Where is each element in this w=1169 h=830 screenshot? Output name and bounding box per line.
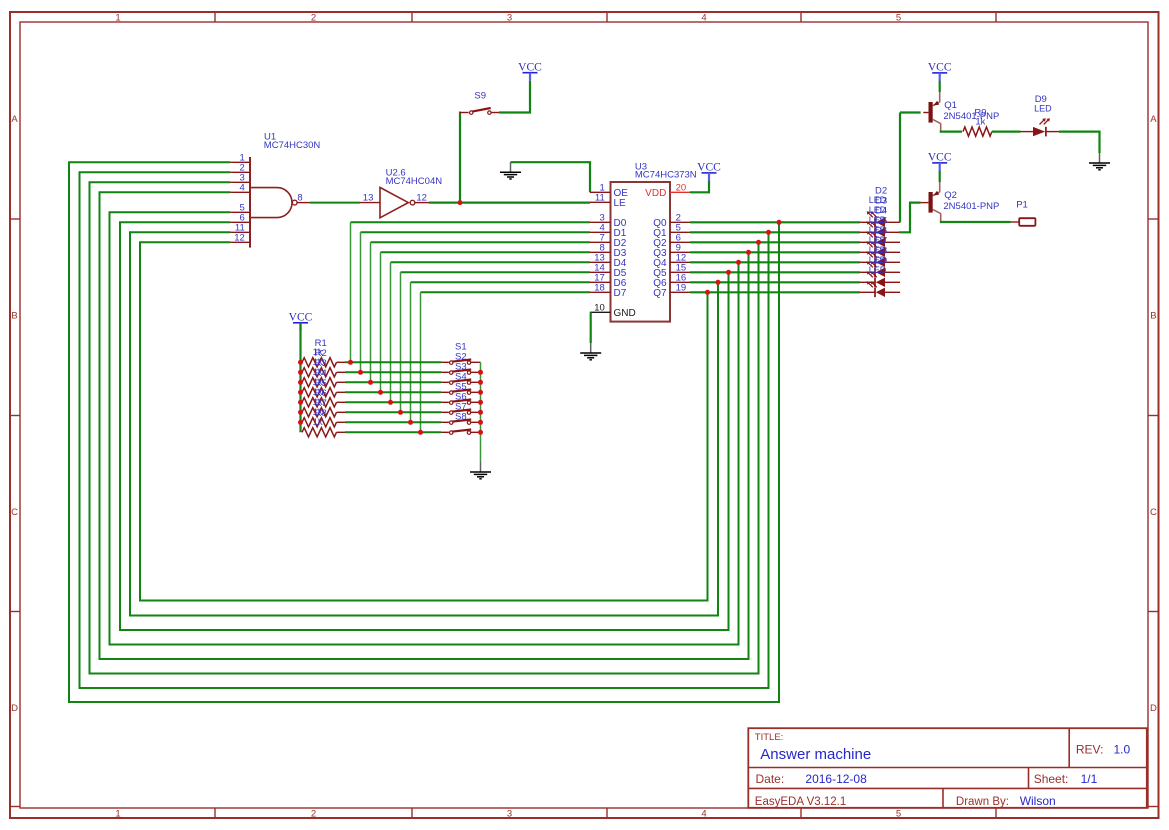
wire U3 D6 to R7/S7 row: [411, 281, 591, 283]
svg-text:B: B: [1150, 311, 1156, 322]
wire NAND output to inverter input: [310, 202, 360, 204]
svg-text:EasyEDA V3.12.1: EasyEDA V3.12.1: [755, 796, 846, 808]
ground (D9): [1099, 153, 1101, 163]
wire U3 Q4 to LED D6: [690, 261, 860, 263]
U3 pin 6 Q2: [653, 232, 690, 249]
wire R3 to S3: [345, 381, 441, 383]
resistor R6 1k: [302, 388, 345, 417]
wire LED D2 anode to Q1 base: [899, 113, 901, 223]
switch S9: [460, 91, 499, 115]
svg-text:Date:: Date:: [756, 772, 785, 786]
svg-text:Q1: Q1: [944, 100, 957, 111]
ground (near U3 OE): [510, 162, 512, 172]
wire VCC rail down resistor left ends: [299, 323, 301, 433]
U3 pin 19 Q7: [653, 282, 690, 299]
LED D9: [1021, 94, 1060, 136]
svg-text:1: 1: [115, 809, 120, 820]
svg-text:P1: P1: [1016, 199, 1028, 210]
wire U3 Q3 to LED D5: [690, 251, 860, 253]
U3 pin 10 GND: [590, 302, 636, 319]
svg-text:18: 18: [594, 282, 605, 293]
junction Q0 feedback tap: [777, 220, 782, 225]
transistor Q1 2N5401-PNP: [923, 92, 999, 132]
wire VCC to Q1 emitter: [939, 81, 941, 92]
svg-text:VCC: VCC: [928, 62, 952, 74]
svg-text:3: 3: [507, 13, 512, 24]
switch S5: [441, 381, 481, 404]
U3 pin 13 D4: [590, 252, 627, 269]
LED D8: [860, 245, 900, 287]
svg-text:VDD: VDD: [645, 188, 666, 199]
svg-text:Sheet:: Sheet:: [1034, 772, 1069, 786]
svg-text:D: D: [11, 703, 18, 714]
wire U3 D3 to R4/S4 row: [381, 251, 591, 253]
svg-text:10: 10: [594, 302, 605, 313]
wire feedback net 5-Q4 : NAND input, left/bottom/right loop: [110, 212, 739, 644]
LED D7: [860, 235, 900, 277]
U3 pin 5 Q1: [653, 222, 690, 239]
junction Q5 feedback tap: [726, 270, 731, 275]
wire Q2 collector to P1: [940, 221, 1011, 223]
svg-text:LED: LED: [869, 265, 887, 275]
svg-text:S9: S9: [474, 91, 486, 102]
svg-text:1: 1: [115, 13, 120, 24]
svg-text:3: 3: [507, 809, 512, 820]
junction D6 drop on row 7: [408, 420, 413, 425]
wire R4 to S4: [345, 391, 441, 393]
svg-text:Q2: Q2: [944, 190, 957, 201]
junction switch bus S7: [478, 420, 483, 425]
svg-text:VCC: VCC: [928, 152, 952, 164]
wire R8 to S8: [345, 431, 441, 433]
wire U3 Q1 to LED D3: [690, 231, 860, 233]
LED D6: [860, 225, 900, 267]
LED D9: [860, 255, 900, 297]
resistor R4 1k: [302, 368, 345, 397]
switch S7: [441, 401, 481, 424]
U3 pin 20 VDD: [645, 182, 690, 199]
svg-text:VCC: VCC: [289, 312, 313, 324]
svg-text:GND: GND: [614, 308, 636, 319]
junction VCC rail R7: [298, 420, 303, 425]
wire U3 Q7 to LED D9: [690, 291, 860, 293]
resistor R3 1k: [302, 358, 345, 387]
wire R7 to S7: [345, 421, 441, 423]
resistor R2 1k: [302, 348, 345, 377]
svg-text:2N5401-PNP: 2N5401-PNP: [943, 201, 999, 212]
svg-text:D: D: [1150, 703, 1157, 714]
svg-text:D7: D7: [614, 288, 627, 299]
junction switch bus S4: [478, 390, 483, 395]
junction VCC rail R1: [298, 360, 303, 365]
junction D2 drop on row 3: [368, 380, 373, 385]
svg-text:11: 11: [595, 192, 605, 203]
svg-text:2016-12-08: 2016-12-08: [805, 772, 867, 786]
U3 pin 16 Q6: [653, 272, 690, 289]
LED D3: [860, 195, 900, 237]
wire R5 to S5: [345, 401, 441, 403]
op-amp U2.6 (inverter MC74HC04N): [360, 168, 442, 218]
svg-text:LE: LE: [614, 198, 627, 209]
svg-text:20: 20: [676, 182, 687, 193]
junction D0 drop on row 1: [348, 360, 353, 365]
switch S1: [441, 341, 481, 364]
svg-text:S8: S8: [455, 411, 467, 422]
connector P1: [1011, 199, 1036, 226]
op-amp U3 (latch MC74HC373N) body: [611, 182, 671, 322]
svg-text:TITLE:: TITLE:: [755, 732, 784, 743]
U3 pin 1 OE: [590, 182, 628, 199]
wire R1 to S1: [345, 361, 441, 363]
svg-text:Drawn By:: Drawn By:: [956, 796, 1009, 808]
wire U3 Q5 to LED D7: [690, 271, 860, 273]
U3 pin 11 LE: [590, 192, 626, 209]
wire LED D3 anode to Q2 base: [899, 203, 921, 233]
svg-text:19: 19: [676, 282, 687, 293]
wire feedback net 3-Q2 : NAND input, left/bottom/right loop: [90, 182, 759, 673]
wire R2 to S2: [345, 371, 441, 373]
wire feedback net 4-Q3 : NAND input, left/bottom/right loop: [100, 192, 749, 659]
switch S4: [441, 371, 481, 394]
LED D5: [860, 215, 900, 257]
resistor R1 1k: [302, 338, 345, 367]
wire feedback net 11-Q6 : NAND input, left/bottom/right loop: [130, 232, 718, 615]
svg-text:A: A: [11, 114, 18, 125]
junction Q2 feedback tap: [756, 240, 761, 245]
wire U3 D2 to R3/S3 row: [371, 241, 591, 243]
junction switch bus S8: [478, 430, 483, 435]
svg-text:LED: LED: [1034, 104, 1052, 114]
wire U3 D0 to R1/S1 row: [351, 221, 591, 223]
wire U3 D1 to R2/S2 row: [361, 231, 591, 233]
ground (U3 pin 10): [590, 343, 592, 353]
junction switch bus S2: [478, 370, 483, 375]
wire U3 Q2 to LED D4: [690, 241, 860, 243]
svg-text:4: 4: [701, 809, 706, 820]
resistor R7 1k: [302, 398, 345, 427]
svg-text:1/1: 1/1: [1081, 772, 1098, 786]
svg-text:12: 12: [416, 193, 427, 204]
wire feedback net 2-Q1 : NAND input, left/bottom/right loop: [80, 172, 769, 688]
svg-text:VCC: VCC: [697, 162, 721, 174]
LED D4: [860, 205, 900, 247]
LED D2: [860, 185, 900, 227]
svg-text:C: C: [11, 507, 18, 518]
wire feedback net 1-Q0 : NAND input, left/bottom/right loop: [69, 162, 779, 702]
junction D3 drop on row 4: [378, 390, 383, 395]
resistor R8 1k: [302, 408, 345, 437]
wire U3 D7 to R8/S8 row: [421, 291, 591, 293]
wire Q1 collector to R9: [940, 131, 962, 133]
wire feedback net 12-Q7 : NAND input, left/bottom/right loop: [140, 242, 708, 600]
svg-text:4: 4: [701, 13, 706, 24]
svg-text:1k: 1k: [313, 417, 323, 428]
wire U3 Q6 to LED D8: [690, 281, 860, 283]
junction Q1 feedback tap: [766, 230, 771, 235]
junction D1 drop on row 2: [358, 370, 363, 375]
junction D7 drop on row 8: [418, 430, 423, 435]
svg-text:1k: 1k: [975, 117, 985, 128]
wire R9 to D9: [992, 131, 1021, 133]
junction D5 drop on row 6: [398, 410, 403, 415]
svg-text:MC74HC04N: MC74HC04N: [386, 176, 443, 187]
svg-text:Q7: Q7: [653, 288, 667, 299]
svg-text:2: 2: [311, 13, 316, 24]
junction Q6 feedback tap: [716, 280, 721, 285]
svg-text:12: 12: [234, 232, 245, 243]
svg-text:8: 8: [297, 193, 302, 204]
wire S9 to VCC: [499, 81, 530, 113]
ground (switch bank): [480, 462, 482, 472]
title block: [748, 728, 1147, 808]
svg-text:2: 2: [311, 809, 316, 820]
wire inverter output to U3 LE: [429, 202, 590, 204]
svg-text:VCC: VCC: [518, 62, 542, 74]
svg-text:Wilson: Wilson: [1020, 794, 1056, 808]
wire R6 to S6: [345, 411, 441, 413]
wire switch bus to ground: [480, 362, 482, 462]
U3 pin 14 D5: [590, 262, 627, 279]
switch S2: [441, 351, 481, 374]
junction VCC rail R4: [298, 390, 303, 395]
U3 pin 7 D2: [590, 232, 627, 249]
svg-text:1.0: 1.0: [1114, 743, 1131, 757]
svg-text:MC74HC30N: MC74HC30N: [264, 140, 321, 151]
wire S9 to junction: [459, 112, 461, 203]
wire U3 GND pin down: [590, 312, 592, 343]
U3 pin 17 D6: [590, 272, 627, 289]
svg-text:2N5401-PNP: 2N5401-PNP: [943, 111, 999, 122]
svg-text:Answer machine: Answer machine: [760, 746, 871, 763]
junction switch bus S3: [478, 380, 483, 385]
junction Q4 feedback tap: [736, 260, 741, 265]
svg-text:5: 5: [896, 809, 901, 820]
svg-text:MC74HC373N: MC74HC373N: [635, 170, 697, 181]
op-amp U1 (8-input NAND MC74HC30N): [230, 132, 320, 248]
junction Q7 feedback tap: [705, 290, 710, 295]
wire ground to U3 OE pin: [511, 162, 591, 192]
junction S9 branch: [458, 200, 463, 205]
wire VCC to Q2 emitter: [939, 171, 941, 182]
transistor Q2 2N5401-PNP: [921, 182, 1000, 222]
wire U3 D4 to R5/S5 row: [391, 261, 591, 263]
svg-text:C: C: [1150, 507, 1157, 518]
U3 pin 4 D1: [590, 222, 627, 239]
wire feedback net 6-Q5 : NAND input, left/bottom/right loop: [120, 222, 729, 630]
svg-text:5: 5: [896, 13, 901, 24]
wire U3 VDD to VCC: [690, 181, 709, 193]
svg-text:A: A: [1150, 114, 1157, 125]
resistor R9 1k: [963, 107, 992, 136]
U3 pin 3 D0: [590, 212, 627, 229]
junction VCC rail R3: [298, 380, 303, 385]
junction switch bus S5: [478, 400, 483, 405]
wire U3 Q0 to LED D2: [690, 221, 860, 223]
U3 pin 9 Q3: [653, 242, 690, 258]
U3 pin 8 D3: [590, 242, 627, 258]
svg-text:4: 4: [240, 182, 245, 193]
junction VCC rail R2: [298, 370, 303, 375]
switch S6: [441, 391, 481, 414]
junction D4 drop on row 5: [388, 400, 393, 405]
U3 pin 15 Q5: [653, 262, 690, 279]
switch S3: [441, 361, 481, 384]
junction Q3 feedback tap: [746, 250, 751, 255]
switch S8: [441, 411, 481, 434]
U3 pin 12 Q4: [653, 252, 690, 269]
wire U3 D5 to R6/S6 row: [401, 271, 591, 273]
junction switch bus S6: [478, 410, 483, 415]
junction VCC rail R5: [298, 400, 303, 405]
junction VCC rail R6: [298, 410, 303, 415]
resistor R5 1k: [302, 378, 345, 407]
svg-text:REV:: REV:: [1076, 743, 1104, 757]
U3 pin 18 D7: [590, 282, 627, 299]
U3 pin 2 Q0: [653, 212, 690, 229]
wire D9 to ground: [1059, 132, 1100, 153]
svg-text:B: B: [11, 311, 17, 322]
